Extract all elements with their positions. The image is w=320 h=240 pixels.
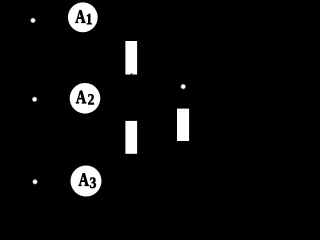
terminal node D1 bbox=[30, 17, 36, 23]
resistor R3 bbox=[177, 109, 189, 141]
wire: middle branch rail bbox=[34, 98, 183, 181]
ammeter A1 bbox=[68, 2, 98, 32]
resistor R1 bbox=[125, 41, 137, 75]
terminal node D4 bbox=[180, 84, 186, 90]
ammeter A3 bbox=[71, 166, 102, 197]
terminal node D3 bbox=[32, 179, 38, 185]
wire: right branch bbox=[182, 89, 184, 181]
wire stub notch at R1 bottom bbox=[131, 73, 133, 74]
wire: top branch rail bbox=[33, 17, 131, 98]
ammeter A2 bbox=[70, 83, 101, 114]
wire: bottom rail bbox=[35, 180, 183, 182]
terminal node D2 bbox=[32, 96, 38, 102]
resistor R2 bbox=[125, 121, 137, 154]
